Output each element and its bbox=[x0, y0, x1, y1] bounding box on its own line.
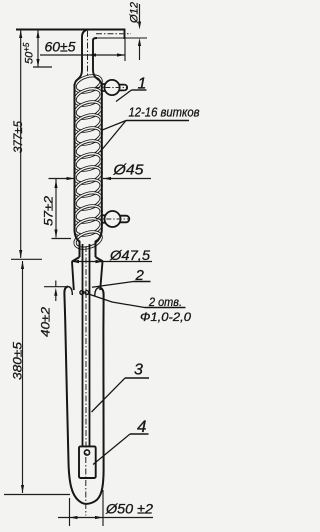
top outlet tube (elbow) bbox=[16, 29, 147, 71]
tube horizontal centerline bbox=[96, 33, 131, 35]
svg-text:57±2: 57±2 bbox=[44, 195, 56, 226]
dimension 60±5 (top) bbox=[40, 54, 125, 56]
sample basket (item 4) bbox=[79, 446, 96, 478]
svg-text:40±2: 40±2 bbox=[41, 306, 53, 337]
cone joint flare bbox=[72, 257, 103, 290]
bottom extension line bbox=[4, 494, 70, 496]
dimension Ø50±2 (bottom) bbox=[69, 498, 71, 526]
svg-text:60±5: 60±5 bbox=[45, 40, 77, 55]
svg-text:Ø47,5: Ø47,5 bbox=[109, 247, 150, 263]
dimension 50+5 (top left) bbox=[33, 30, 52, 67]
mid extension line bbox=[11, 258, 42, 260]
drip tube bbox=[83, 244, 90, 446]
dimension 57±2 bbox=[55, 179, 57, 238]
jacket walls bbox=[75, 84, 102, 257]
bottom arm centerline bbox=[96, 218, 129, 220]
svg-text:3: 3 bbox=[134, 362, 143, 379]
drip tube centerline bbox=[85, 246, 87, 455]
coil (12-16 turns spiral inside jacket) bbox=[73, 73, 103, 251]
top side arm (olive) bbox=[102, 80, 127, 95]
svg-text:Ø12: Ø12 bbox=[129, 2, 141, 24]
svg-text:Ø50 ±2: Ø50 ±2 bbox=[105, 502, 154, 517]
dimension Ø12 (top right) bbox=[139, 4, 141, 60]
neck flare into jacket bbox=[75, 70, 102, 86]
lower centerline bbox=[85, 457, 87, 516]
dimension 47.5 line with arrows bbox=[72, 261, 153, 263]
svg-text:4: 4 bbox=[137, 417, 146, 436]
dimension 377±5 (left) bbox=[20, 30, 22, 258]
dimension 380±5 (left lower) bbox=[22, 261, 24, 493]
dimension Ø45 bbox=[49, 178, 75, 180]
svg-text:380±5: 380±5 bbox=[11, 342, 25, 380]
condenser vertical centerline bbox=[87, 31, 89, 76]
svg-text:377±5: 377±5 bbox=[13, 120, 25, 153]
dimension 40±2 bbox=[44, 286, 67, 288]
two holes in drip tube bbox=[80, 291, 84, 295]
svg-text:12-16 витков: 12-16 витков bbox=[129, 106, 200, 120]
top arm centerline bbox=[95, 87, 127, 89]
svg-text:Ф1,0-2,0: Ф1,0-2,0 bbox=[140, 312, 192, 324]
svg-text:Ø45: Ø45 bbox=[112, 163, 144, 179]
bottom side arm (olive) bbox=[102, 211, 130, 227]
test tube bbox=[64, 287, 103, 504]
